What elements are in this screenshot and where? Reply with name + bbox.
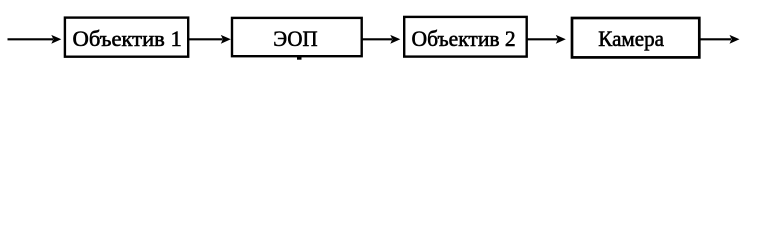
svg-text:Камера: Камера [598,26,664,51]
block Объектив 2 [404,17,527,57]
arrowhead box3 to box4 [556,35,566,44]
block Камера [572,18,699,57]
svg-text:ЭОП: ЭОП [273,26,317,51]
arrowhead input [51,35,61,44]
svg-text:Объектив 1: Объектив 1 [73,26,182,51]
arrowhead output [730,35,740,44]
arrowhead box1 to box2 [221,35,231,44]
arrowhead box2 to box3 [390,35,400,44]
wire box2 to box3 [362,38,392,40]
wire box1 to box2 [188,38,222,40]
block ЭОП [232,18,362,56]
tick below ЭОП [297,57,302,60]
block Объектив 1 [65,18,188,57]
wire input [8,38,54,40]
wire output [699,38,731,40]
svg-text:Объектив 2: Объектив 2 [412,26,516,51]
wire box3 to box4 [527,38,558,40]
